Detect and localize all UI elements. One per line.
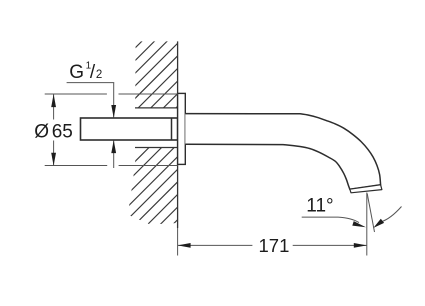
- svg-text:171: 171: [259, 235, 290, 256]
- svg-text:Ø: Ø: [34, 122, 49, 143]
- svg-text:2: 2: [96, 69, 102, 81]
- svg-text:G: G: [69, 62, 84, 83]
- svg-text:65: 65: [52, 122, 73, 143]
- svg-text:11°: 11°: [306, 195, 333, 216]
